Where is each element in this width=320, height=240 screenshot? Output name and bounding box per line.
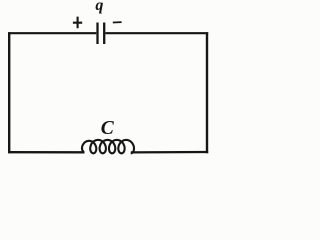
wire bottom left segment (8, 151, 85, 153)
wire left vertical (8, 32, 10, 153)
svg-text:C: C (101, 118, 115, 139)
wire right vertical (206, 32, 208, 153)
wire top right segment (105, 32, 208, 34)
capacitor plate right (103, 23, 105, 45)
plus sign (73, 17, 82, 29)
inductor coil (labeled C) (82, 140, 134, 153)
svg-text:q: q (95, 0, 103, 14)
minus sign (113, 21, 122, 23)
wire bottom right segment (131, 151, 208, 154)
capacitor plate left (96, 23, 98, 45)
wire top left segment (8, 32, 96, 34)
